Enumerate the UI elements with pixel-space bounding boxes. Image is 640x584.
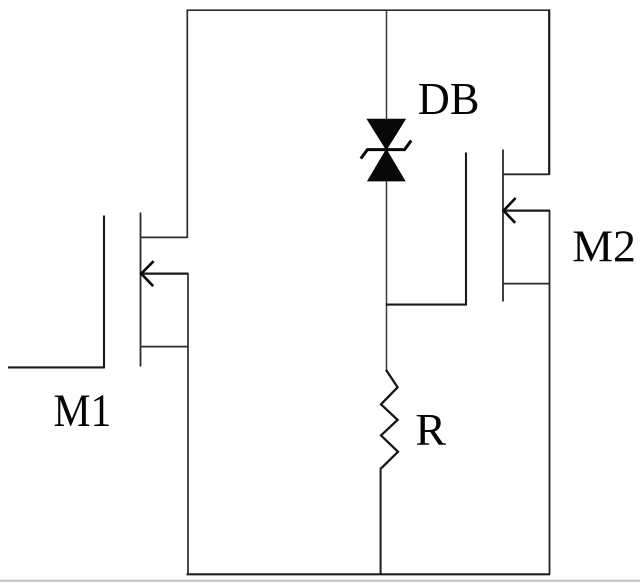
transistor M2 body stub xyxy=(505,210,550,212)
diode DB upper triangle xyxy=(367,119,405,149)
wire right edge lower (M2 body/source down to bottom) xyxy=(549,211,551,576)
transistor M1 source stub xyxy=(140,346,189,348)
transistor M1 body stub xyxy=(143,273,189,275)
transistor M2 gate bar xyxy=(465,153,467,306)
transistor M1 gate bar xyxy=(103,216,105,369)
wire resistor bottom lead xyxy=(380,468,382,575)
wire left edge lower (M1 body/source down to bottom) xyxy=(187,274,189,576)
wire middle vertical top (top edge to DB) xyxy=(386,10,388,122)
transistor M2 drain stub xyxy=(503,173,550,175)
wire middle vertical (DB to resistor, through gate node) xyxy=(386,181,388,371)
wire M1 gate feed (left lead) xyxy=(8,366,105,368)
wire right edge upper (top to M2 drain) xyxy=(548,10,550,176)
transistor M2 source stub xyxy=(503,283,551,285)
transistor M2 channel bar xyxy=(502,150,504,302)
svg-text:M2: M2 xyxy=(572,221,636,271)
diode DB lower triangle xyxy=(368,150,405,181)
transistor M1 channel bar xyxy=(140,213,142,367)
wire left edge upper (top to M1 drain) xyxy=(186,10,188,239)
svg-text:R: R xyxy=(415,404,446,454)
diode DB zener bar with bent ends xyxy=(361,141,411,159)
wire top edge of loop xyxy=(187,9,550,11)
transistor M2 body arrow head xyxy=(504,198,516,223)
wire M2 gate feed (node to gate bar) xyxy=(386,304,467,306)
svg-text:M1: M1 xyxy=(54,385,112,437)
resistor R zigzag xyxy=(381,370,398,468)
page scan edge band at bottom xyxy=(0,580,640,582)
transistor M1 drain stub xyxy=(140,236,188,238)
transistor M1 body arrow head xyxy=(141,261,153,286)
svg-text:DB: DB xyxy=(418,73,480,124)
wire bottom edge of loop xyxy=(187,573,551,575)
